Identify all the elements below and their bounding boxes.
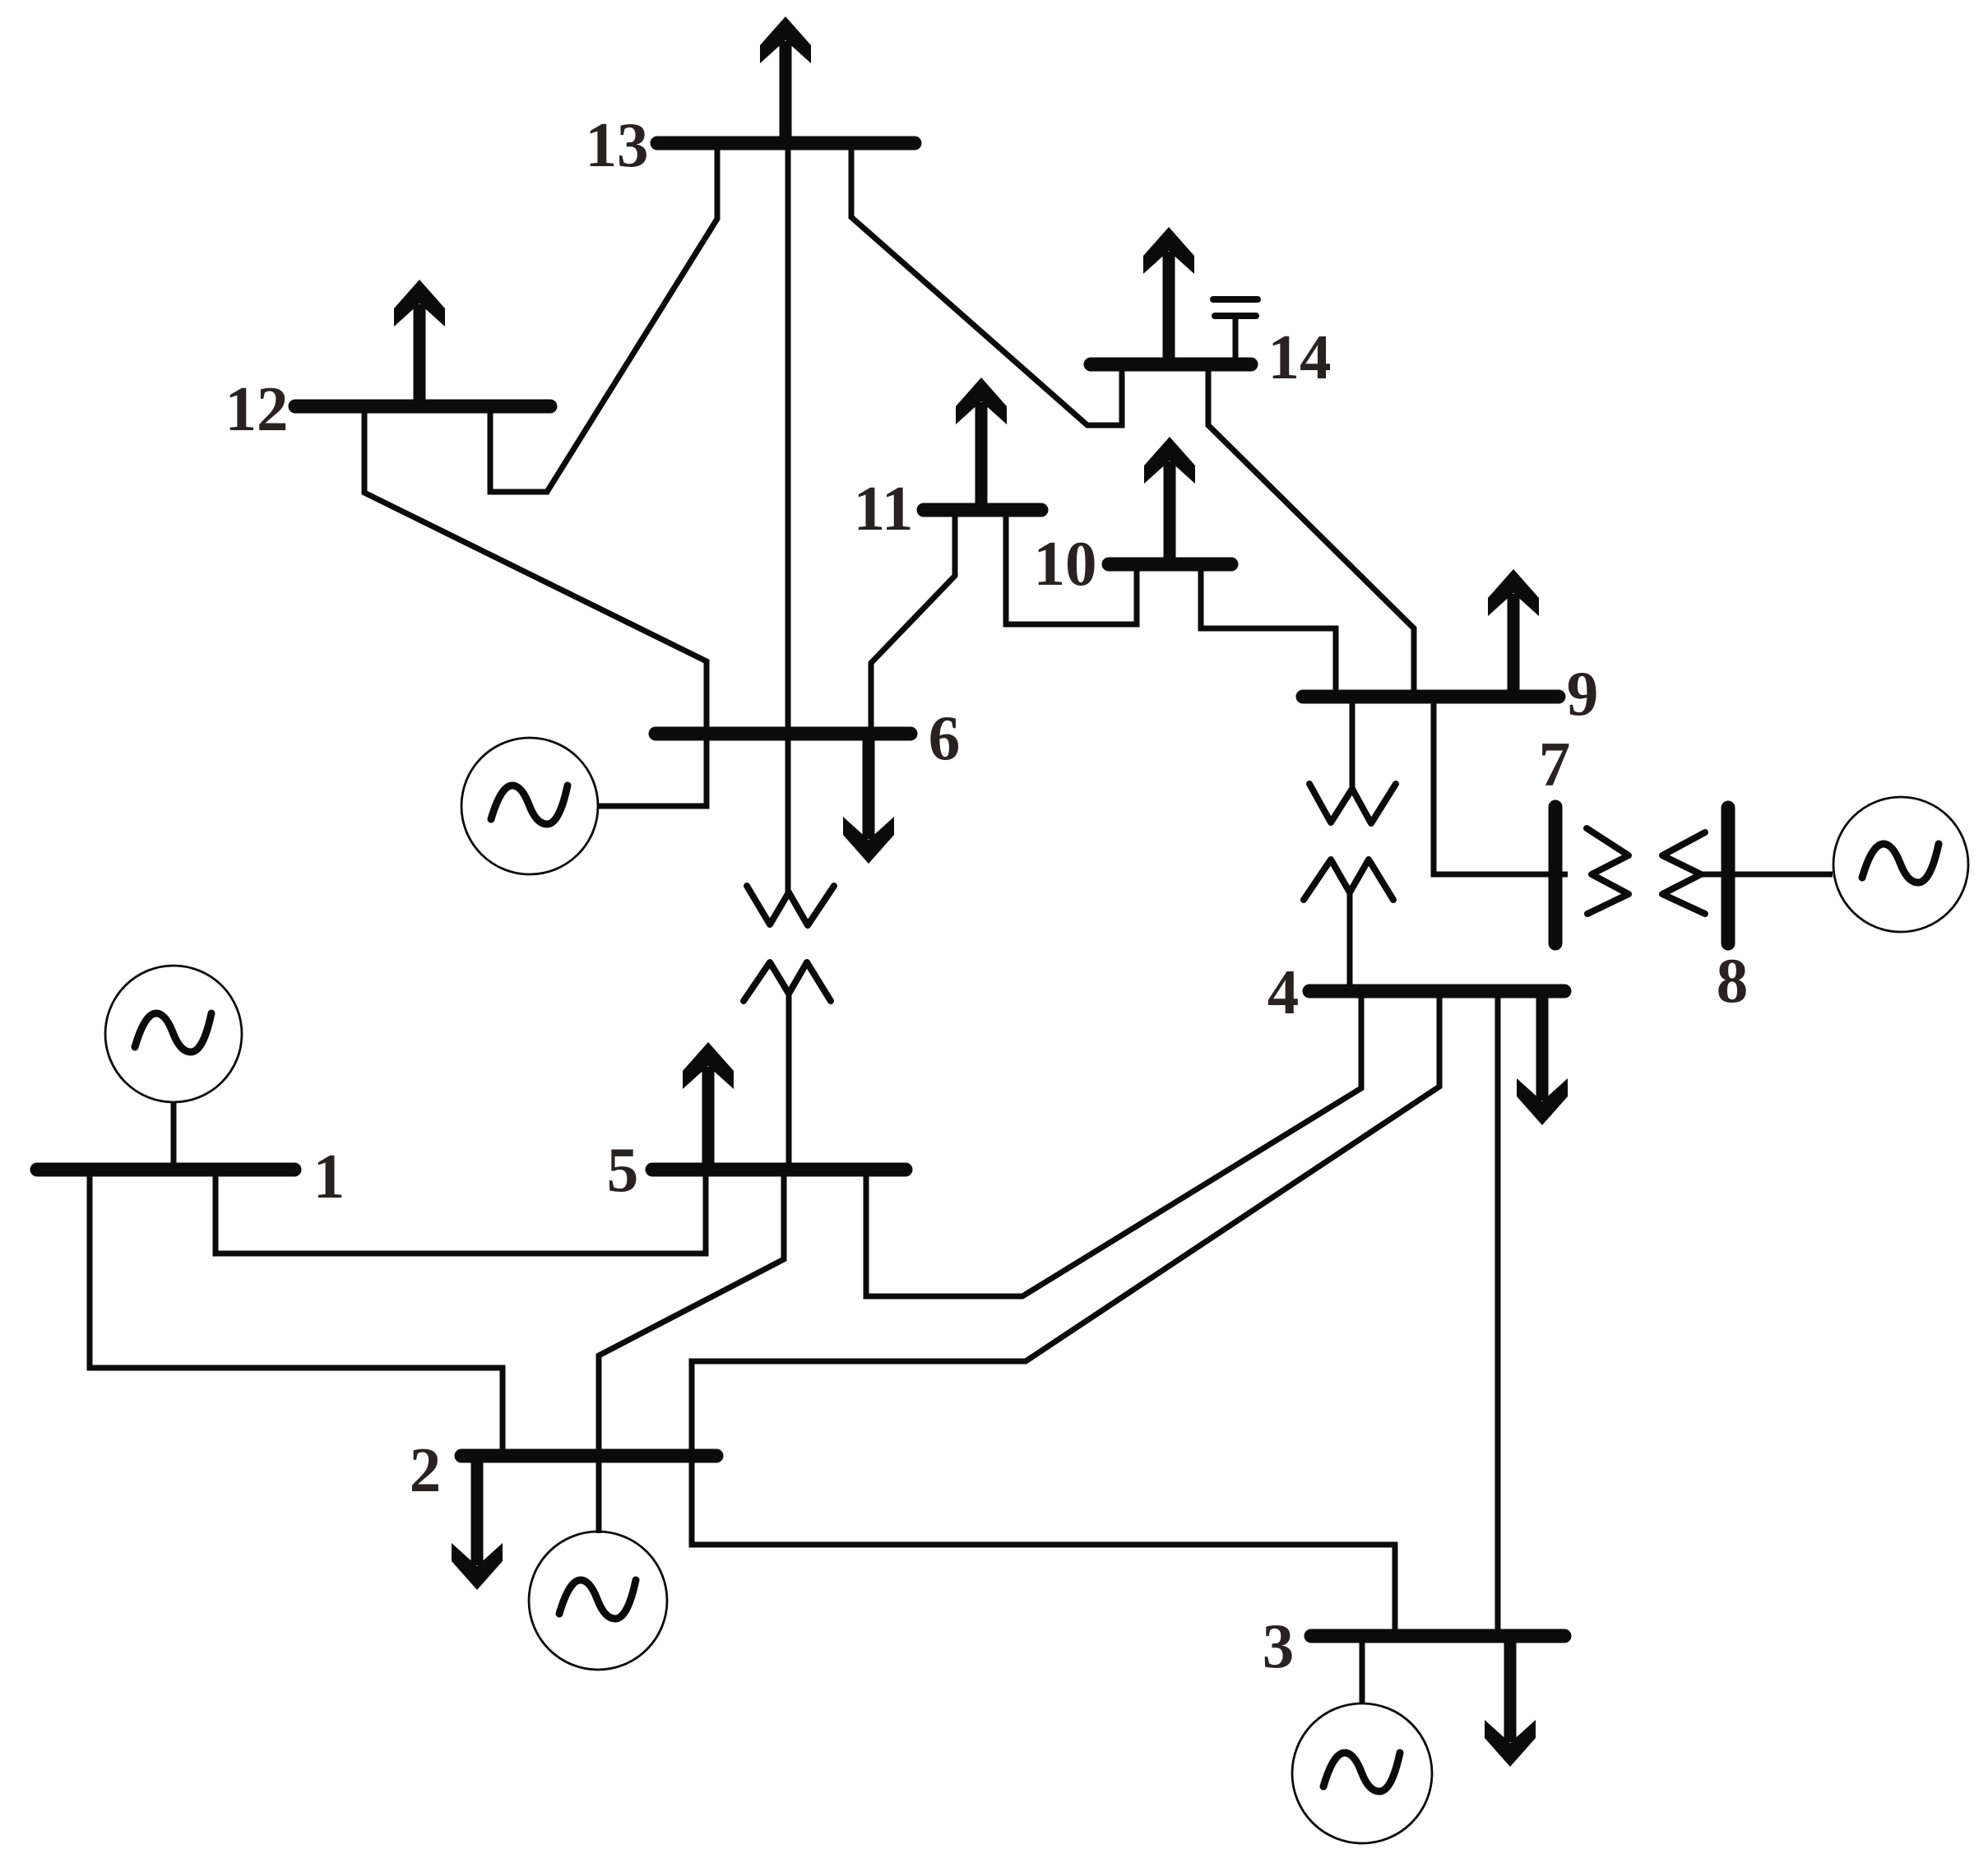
wire line 3-4 — [1495, 991, 1501, 1636]
bus 7 (vertical bar) — [1549, 807, 1563, 943]
shunt capacitor at bus 14 — [1213, 299, 1258, 364]
transformer T7-8 right zigzag — [1662, 832, 1705, 914]
wire line 2-5 — [599, 1170, 784, 1456]
load arrow bus 5 (up) — [683, 1042, 734, 1163]
load arrow bus 6 (down) — [843, 740, 894, 864]
bus 9 — [1303, 690, 1559, 704]
bus 5 — [652, 1163, 906, 1177]
svg-text:1: 1 — [313, 1141, 345, 1212]
bus 12 — [295, 400, 550, 414]
wire line 13-6 — [785, 143, 791, 734]
bus 13 — [657, 137, 915, 151]
svg-text:9: 9 — [1567, 658, 1599, 729]
wire line 13-14 — [851, 143, 1122, 425]
bus 14 — [1091, 358, 1251, 372]
wire line 12-13 — [490, 143, 717, 492]
svg-text:8: 8 — [1717, 945, 1749, 1016]
bus 10 — [1109, 558, 1231, 572]
wire line 1-2 — [90, 1170, 503, 1456]
load arrow bus 12 (up) — [394, 280, 445, 400]
bus 11 — [924, 503, 1041, 517]
generator G3 — [1292, 1636, 1432, 1843]
svg-text:4: 4 — [1267, 957, 1300, 1027]
load arrow bus 2 (down) — [452, 1462, 503, 1590]
bus 4 — [1309, 985, 1564, 999]
svg-text:5: 5 — [607, 1134, 639, 1205]
load arrow bus 3 (down) — [1485, 1643, 1536, 1767]
load arrow bus 13 (up) — [760, 16, 811, 137]
bus 1 — [37, 1163, 294, 1177]
load arrow bus 11 (up) — [956, 378, 1007, 503]
transformer T4-9 upper winding (chevron W) — [1309, 697, 1396, 823]
svg-text:2: 2 — [410, 1434, 442, 1505]
wire line 6-11 — [871, 510, 955, 734]
bus 3 — [1311, 1629, 1564, 1643]
svg-text:10: 10 — [1034, 528, 1097, 599]
wire line 1-5 — [215, 1170, 706, 1254]
svg-text:12: 12 — [225, 373, 289, 444]
svg-text:14: 14 — [1268, 322, 1332, 392]
load arrow bus 10 (up) — [1144, 437, 1195, 558]
wire line 12-6 — [364, 406, 707, 734]
bus 2 — [461, 1449, 716, 1463]
svg-text:11: 11 — [854, 473, 914, 544]
wire line 10-9 — [1201, 564, 1336, 697]
generator G6 — [461, 734, 707, 874]
wire line 5-4 — [866, 991, 1361, 1296]
transformer T5-6 upper winding (chevron W) — [747, 734, 834, 925]
bus 6 — [656, 727, 911, 741]
generator G8 — [1833, 797, 1968, 932]
wire line 14-9 — [1208, 364, 1414, 697]
transformer T5-6 lower winding (chevron M) — [744, 962, 831, 1170]
wire line 2-3 — [692, 1456, 1395, 1636]
load arrow bus 14 (up) — [1143, 227, 1194, 358]
svg-text:6: 6 — [929, 702, 961, 773]
transformer T4-9 lower winding (chevron M) — [1304, 860, 1393, 991]
wire line 11-10 — [1006, 510, 1137, 624]
transformer T7-8 left zigzag — [1587, 828, 1629, 914]
generator G2 — [529, 1456, 667, 1670]
wire line 2-4 — [692, 991, 1439, 1456]
svg-text:13: 13 — [586, 109, 649, 180]
generator G1 — [105, 966, 242, 1170]
bus 8 (vertical bar) — [1722, 808, 1735, 943]
svg-text:7: 7 — [1539, 729, 1571, 799]
wire line 9-7 — [1434, 697, 1568, 874]
wire line 7-8 to generator G8 — [1698, 872, 1833, 878]
load arrow bus 4 (down) — [1517, 998, 1568, 1125]
svg-text:3: 3 — [1263, 1610, 1295, 1681]
load arrow bus 9 (up) — [1488, 569, 1539, 690]
